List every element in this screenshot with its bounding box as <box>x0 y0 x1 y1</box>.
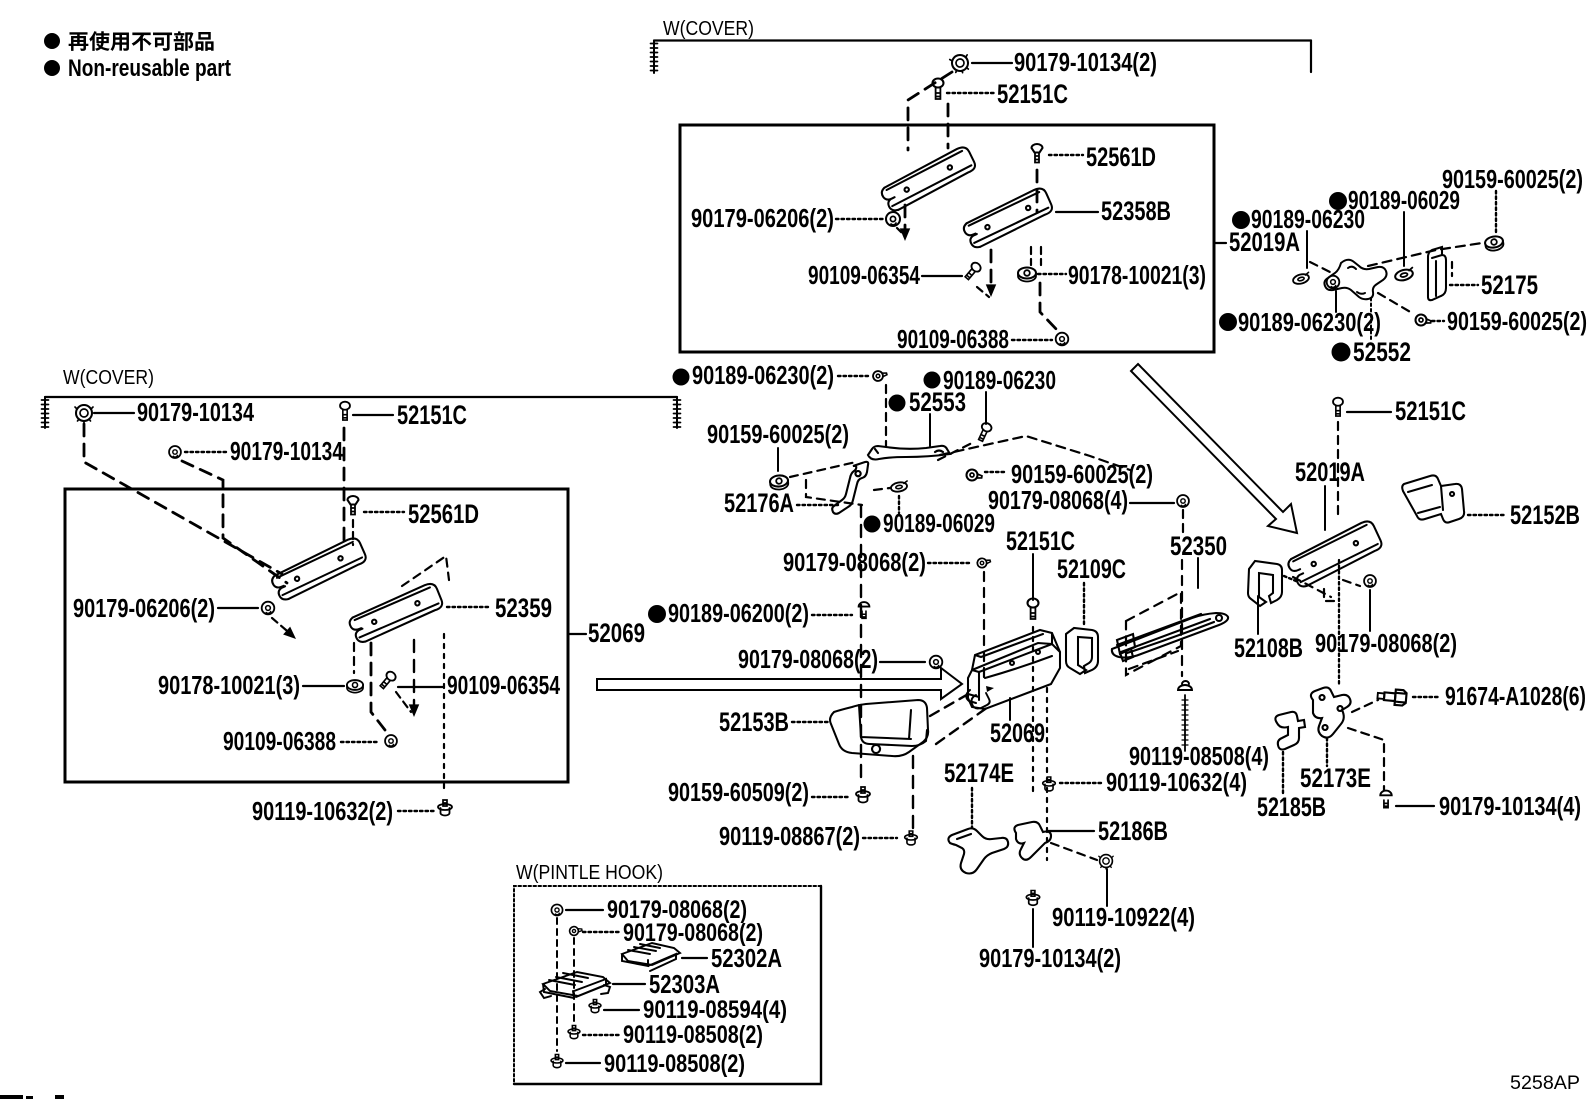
leader 52175 <box>1450 284 1478 286</box>
svg-text:52176A: 52176A <box>724 488 794 518</box>
dotted leader 10632(4) <box>1060 782 1102 784</box>
svg-text:52069: 52069 <box>990 718 1045 748</box>
clip 08068 pintle2 <box>569 925 583 936</box>
leader 52185B down <box>1282 752 1284 794</box>
screw 08068 right <box>1364 575 1376 587</box>
bullet+label 90189-06230(2) right <box>1219 313 1237 331</box>
svg-text:90109-06388: 90109-06388 <box>897 324 1009 354</box>
dashed pintle column1 <box>556 918 558 1051</box>
screw 08594 pintle <box>589 1000 601 1013</box>
svg-text:52175: 52175 <box>1481 270 1538 300</box>
screw 52151C top <box>933 79 944 100</box>
dashed 52151C left down <box>343 428 346 540</box>
dashed from 06200 clip down <box>860 505 862 784</box>
dashed rail2 to nut <box>353 643 355 673</box>
dotted leader 52152B <box>1468 514 1506 516</box>
label 52019A left bracket <box>1214 242 1226 244</box>
dotted leader clip to label <box>898 496 900 513</box>
cut-off footer marks bottom-left <box>0 1095 23 1099</box>
screw 52561D top box <box>1032 144 1043 163</box>
svg-text:Non-reusable part: Non-reusable part <box>68 55 231 82</box>
oval clip 90189-06029 right <box>1394 268 1415 283</box>
svg-text:90189-06230(2): 90189-06230(2) <box>692 360 834 390</box>
bracket 52109C drawing <box>1066 628 1098 674</box>
svg-text:90119-08594(4): 90119-08594(4) <box>643 996 787 1024</box>
svg-text:52359: 52359 <box>495 593 552 623</box>
retainer clip below bumper end <box>972 693 990 709</box>
hook part 52552 <box>1324 260 1386 300</box>
grommet 06206 left <box>262 602 275 615</box>
svg-text:52174E: 52174E <box>944 758 1014 788</box>
leader 52173E <box>1326 738 1328 766</box>
leader 52561D top box <box>1049 154 1083 156</box>
bullet+label 90189-06230 mid <box>924 372 941 389</box>
clamp 52173E drawing <box>1311 687 1351 737</box>
label 52069 left <box>568 633 586 635</box>
svg-text:90119-08508(2): 90119-08508(2) <box>623 1021 763 1049</box>
push screw 60025 mid <box>966 469 983 483</box>
dotted leader 10134 left2 <box>185 451 226 453</box>
leader 52151C center down <box>1032 554 1034 600</box>
dashed bumper to pin 08867 <box>912 756 914 828</box>
svg-text:52151C: 52151C <box>997 79 1068 109</box>
leader 52553 down <box>929 414 931 446</box>
bracket part 52175 <box>1428 247 1446 300</box>
pin 10632(4) <box>1043 777 1056 791</box>
svg-text:90119-08867(2): 90119-08867(2) <box>719 821 860 851</box>
rail 52358B upper (inside top box) <box>878 145 978 214</box>
svg-text:52561D: 52561D <box>1086 142 1156 172</box>
svg-text:90179-06206(2): 90179-06206(2) <box>73 593 215 623</box>
svg-text:90179-08068(4): 90179-08068(4) <box>988 485 1128 515</box>
svg-text:90159-60025(2): 90159-60025(2) <box>1442 164 1583 194</box>
bullet+label 90189-06230(2) mid <box>673 369 690 386</box>
leader 90189-06230 right: pin down <box>1306 231 1308 268</box>
rail1 left box <box>269 536 369 603</box>
nut 90178-10021(3) top box <box>1018 268 1036 282</box>
svg-text:90159-60025(2): 90159-60025(2) <box>707 419 849 449</box>
svg-text:90189-06200(2): 90189-06200(2) <box>668 598 809 628</box>
leader 06230(2) mid <box>838 375 868 377</box>
svg-text:90178-10021(3): 90178-10021(3) <box>1068 260 1206 290</box>
svg-text:52069: 52069 <box>588 618 645 648</box>
pintle hook box <box>514 886 821 1084</box>
dashed rail2 mid down <box>371 643 385 730</box>
svg-text:52151C: 52151C <box>1395 396 1466 426</box>
fastener 90109-06388 top box <box>1056 333 1069 346</box>
leader 10021 left <box>303 685 344 687</box>
screw 10922 <box>1099 855 1113 869</box>
clip 06230(2) mid <box>872 369 888 382</box>
screw 10632(2) <box>438 800 452 816</box>
dashed hook diag left <box>1310 262 1330 272</box>
svg-text:52109C: 52109C <box>1057 554 1126 584</box>
legend bullet 2 <box>44 60 60 76</box>
rail2 52359 left box <box>347 581 446 644</box>
bar part 52553 <box>868 446 950 460</box>
leader 52151C right <box>1347 411 1391 413</box>
leader 60509 <box>812 796 848 798</box>
hook part 52174E <box>948 828 1008 873</box>
svg-text:52350: 52350 <box>1170 531 1227 561</box>
leader 52153B <box>792 721 828 723</box>
svg-text:W(PINTLE HOOK): W(PINTLE HOOK) <box>516 862 663 884</box>
grommet 08068(2) lower <box>930 656 943 669</box>
svg-text:52553: 52553 <box>909 387 966 417</box>
dashed line to rail1 with arrow <box>904 205 907 234</box>
leader 52358B <box>1056 211 1098 213</box>
screw 08508 pintle1 <box>568 1026 580 1039</box>
svg-text:90179-10134(2): 90179-10134(2) <box>979 943 1121 973</box>
svg-text:5258AP: 5258AP <box>1510 1073 1580 1094</box>
leader 08068(2) lower <box>880 661 925 663</box>
svg-text:52186B: 52186B <box>1098 816 1168 846</box>
dotted leader 08068 pintle2 <box>583 931 619 933</box>
dashed 52173E to bolt <box>1352 700 1378 712</box>
dashed 52350 box to screw <box>1129 651 1178 669</box>
leader 08068 right down <box>1369 590 1371 631</box>
dotted leader 08508 pintle1 <box>583 1034 619 1036</box>
dotted leader 08068(2) upper <box>928 562 972 564</box>
svg-text:90189-06230(2): 90189-06230(2) <box>1238 307 1381 337</box>
svg-text:52303A: 52303A <box>649 969 720 999</box>
svg-text:90179-10134(4): 90179-10134(4) <box>1439 791 1581 821</box>
dashed pintle column2 <box>573 938 575 1024</box>
dashed 52153B to bumper <box>930 693 970 716</box>
left bracket line <box>45 396 677 398</box>
dotted leader 52174E <box>971 788 973 828</box>
dashed 52175 to nut diag <box>1368 243 1482 266</box>
dashed 52561D left down <box>352 520 354 545</box>
svg-text:W(COVER): W(COVER) <box>663 18 754 40</box>
dashed below rail 52019A <box>1293 577 1331 597</box>
pin 08867 <box>905 831 918 845</box>
svg-text:W(COVER): W(COVER) <box>63 367 154 389</box>
svg-text:90179-06206(2): 90179-06206(2) <box>691 203 834 233</box>
leader 06354 left <box>398 686 443 688</box>
leader 90179-10134(2) top <box>972 62 1012 64</box>
leader 52151C left <box>353 414 393 416</box>
dashed line from 52151C screw down <box>947 104 950 148</box>
svg-text:52358B: 52358B <box>1101 196 1171 226</box>
bullet+label 52552 <box>1332 343 1351 362</box>
screw 08068(4) <box>1177 495 1189 507</box>
screw 08508 pintle2 <box>551 1055 563 1068</box>
dashed 06206 arrow in top box <box>897 228 905 236</box>
clip under 90189-06230 right <box>1292 272 1311 285</box>
top bracket line <box>654 39 1311 41</box>
strip part 52176A <box>832 462 868 514</box>
dotted leader 52561D left <box>364 511 404 513</box>
dashed 52173E down to pin <box>1348 728 1384 790</box>
dotted leader 60025 mid <box>985 471 1006 473</box>
leader 52552 <box>1370 298 1372 341</box>
dashed line from 10134 clip down-left <box>908 72 952 150</box>
svg-text:91674-A1028(6): 91674-A1028(6) <box>1445 681 1586 711</box>
dotted leader 10632(2) <box>398 810 434 812</box>
left bracket hatched end right <box>676 397 678 428</box>
dashed 52561D screw to rail2 <box>1036 170 1039 212</box>
leader 06206 left <box>218 607 258 609</box>
grommet 10134 left2 <box>169 446 181 458</box>
leader 90189-06029 right down <box>1403 212 1405 266</box>
leader grommet down to label <box>1335 291 1337 312</box>
dashed 08068(4) down <box>1182 510 1184 536</box>
leader 06230 mid down <box>985 392 987 424</box>
bullet+label 90189-06200(2) <box>648 605 666 623</box>
dashed 52186B to screw 10922 <box>1051 843 1097 860</box>
top W(COVER) parts box <box>680 125 1214 352</box>
left bracket hatched end left <box>44 397 46 428</box>
dotted pair under bumper <box>1032 627 1034 795</box>
svg-text:52561D: 52561D <box>408 499 479 529</box>
part 52152B drawing <box>1402 475 1464 522</box>
svg-text:52153B: 52153B <box>719 707 789 737</box>
leader 52176A <box>797 504 838 506</box>
svg-text:52302A: 52302A <box>711 943 782 973</box>
svg-text:90119-08508(2): 90119-08508(2) <box>604 1050 745 1078</box>
screw 52151C center <box>1028 599 1039 620</box>
fastener 90109-06354 top box <box>963 261 982 281</box>
leader 08068(4) <box>1130 502 1174 504</box>
dashed 52151C right down <box>1337 422 1339 514</box>
fastener 90179-10134(2) top <box>949 53 971 75</box>
svg-text:90159-60509(2): 90159-60509(2) <box>668 777 809 807</box>
screw 52561D left <box>348 496 359 515</box>
svg-text:52152B: 52152B <box>1510 500 1580 530</box>
dotted leader 91674 <box>1413 696 1440 698</box>
dashed below nut to 06388 <box>1040 283 1058 331</box>
svg-text:90159-60025(2): 90159-60025(2) <box>1447 306 1587 336</box>
dashed hook to washer-screw <box>1378 293 1412 313</box>
dashed net around 52553/52176A <box>885 385 887 446</box>
leader 52302A <box>682 957 707 959</box>
rail 52359-style lower (inside top box) <box>961 186 1056 250</box>
leader 52069 center <box>1009 698 1011 720</box>
clip 08068(2) upper <box>976 556 991 568</box>
dotted 52108B to rail <box>1284 576 1296 581</box>
svg-text:90119-10922(4): 90119-10922(4) <box>1052 902 1195 932</box>
top bracket end right <box>1310 41 1312 73</box>
leader 52186B <box>1048 830 1094 832</box>
fastener 06388 left <box>385 735 397 747</box>
big diagonal arrow <box>1131 364 1297 533</box>
bullet+label 90189-06230 right <box>1232 211 1250 229</box>
plate 52302A drawing <box>622 943 680 971</box>
leader 60025 left down <box>777 448 779 471</box>
dotted leader 60025 down <box>1495 191 1497 233</box>
leader 52359 <box>447 606 491 608</box>
dashed 08068(2) down <box>983 572 985 680</box>
pin 10134(4) <box>1380 791 1391 808</box>
plate 52303A drawing <box>540 972 610 998</box>
dashed 06206 arrow <box>272 618 293 636</box>
svg-text:90109-06354: 90109-06354 <box>447 670 560 700</box>
leader 90109-06354 top box <box>922 275 962 277</box>
leader 06200 dotted <box>812 614 852 616</box>
screw 52151C left <box>340 402 350 420</box>
leader 08867 <box>863 837 897 839</box>
bullet+label 90189-06029 mid <box>864 516 881 533</box>
svg-text:90109-06388: 90109-06388 <box>223 726 336 756</box>
dashed parallelogram 52350 projection <box>1126 592 1181 675</box>
svg-text:90179-10134(2): 90179-10134(2) <box>1014 47 1157 77</box>
end cap 52153B drawing <box>830 700 928 756</box>
svg-text:52108B: 52108B <box>1234 633 1303 663</box>
rail 52019A right drawing <box>1285 519 1385 590</box>
fastener near 60025 mid-right <box>1415 314 1432 328</box>
svg-text:52019A: 52019A <box>1295 457 1365 487</box>
grommet 90179-06206(2) top box <box>886 212 900 226</box>
nut 60025 left <box>770 475 789 491</box>
svg-text:90119-10632(4): 90119-10632(4) <box>1106 767 1247 797</box>
dashed rail2 to nut pair <box>1030 247 1032 265</box>
leader 90178-10021(3) top box <box>1038 273 1066 275</box>
leader 08068 pintle1 <box>566 909 603 911</box>
dashed grommet2 path <box>182 461 287 583</box>
dashed 06354 arrow down <box>396 692 411 712</box>
bumper 52069 center drawing <box>966 630 1060 709</box>
legend bullet 1 <box>44 33 60 49</box>
bullet+label 90189-06029 right <box>1329 192 1347 210</box>
oval clip 06029 mid <box>890 481 908 493</box>
leader 10134(4) <box>1396 805 1434 807</box>
leader 52151C top <box>947 92 994 94</box>
svg-text:90179-08068(2): 90179-08068(2) <box>1315 628 1457 658</box>
leader 90179-06206(2) top box <box>836 218 883 220</box>
leader 08508 pintle2 <box>566 1062 600 1064</box>
skid plate 52350 drawing <box>1112 613 1228 661</box>
legend CJK text 再使用不可部品 <box>69 31 214 51</box>
solid 52350 leader down <box>1197 558 1199 588</box>
left parts box <box>65 489 568 782</box>
leader 52108B down <box>1257 596 1259 634</box>
dashed projection parallelogram left box <box>402 556 449 586</box>
dashed small near 52175 <box>1451 262 1453 276</box>
dashed bolt1 to rail <box>84 424 282 574</box>
dashed 52350 left line down <box>1181 560 1183 676</box>
dotted leader 52109C down <box>1083 583 1085 625</box>
leader 10922 down <box>1106 869 1108 906</box>
top bracket hatched end left <box>653 41 655 74</box>
leader 08594 <box>604 1009 639 1011</box>
leader 10134(2) bottom <box>1032 909 1034 947</box>
svg-text:90179-08068(2): 90179-08068(2) <box>738 644 878 674</box>
screw 08508(4) long <box>1178 681 1192 751</box>
leader 90109-06388 top box <box>1012 339 1052 341</box>
leader 10134 left1 <box>94 412 134 414</box>
svg-text:90179-08068(2): 90179-08068(2) <box>783 547 926 577</box>
screw 60509 <box>856 787 870 803</box>
fastener 06354 left <box>378 670 397 690</box>
clamp 52185B drawing <box>1275 712 1305 750</box>
svg-text:52185B: 52185B <box>1257 792 1326 822</box>
dotted leader 06388 left <box>341 741 379 743</box>
svg-text:90119-10632(2): 90119-10632(2) <box>252 796 393 826</box>
dotted leader 60025 mid-right <box>1432 320 1444 322</box>
svg-text:52151C: 52151C <box>397 400 467 430</box>
svg-text:52552: 52552 <box>1353 337 1411 367</box>
leader 52019A right down <box>1324 486 1326 530</box>
long dotted rail2 to bottom screw <box>443 634 445 793</box>
bracket 52186B drawing <box>1014 822 1051 860</box>
washer screw 10134(2) bottom <box>1026 891 1039 906</box>
bolt 91674-A1028(6) <box>1377 688 1407 706</box>
nut 10021 left <box>347 680 363 693</box>
clip 08068 pintle1 <box>551 904 562 915</box>
push screw 06230 mid <box>976 422 993 443</box>
screw 52151C right <box>1333 398 1343 416</box>
svg-text:52151C: 52151C <box>1006 526 1075 556</box>
small arrow inside bumper end <box>986 686 994 692</box>
svg-text:90178-10021(3): 90178-10021(3) <box>158 670 300 700</box>
svg-text:52019A: 52019A <box>1229 227 1300 257</box>
svg-text:52173E: 52173E <box>1300 763 1371 793</box>
dashed rail2 bottom-left down with arrow <box>990 250 993 290</box>
clip 06200 <box>859 602 870 618</box>
frame part 52108B <box>1248 561 1282 606</box>
dashed 06354 diag <box>977 287 989 297</box>
svg-text:90109-06354: 90109-06354 <box>808 260 920 290</box>
svg-text:90179-10134: 90179-10134 <box>230 436 343 466</box>
big right arrow <box>597 668 962 699</box>
grommet above 06230(2) <box>1327 276 1340 289</box>
leader 52303A <box>613 983 645 985</box>
bolt head 10134 left1 <box>75 405 93 423</box>
svg-text:90179-10134: 90179-10134 <box>137 397 254 427</box>
nut 60025 top right <box>1484 235 1504 252</box>
bullet+label 52553 <box>889 395 906 412</box>
dashed rail to 08068 screw <box>1343 580 1360 586</box>
